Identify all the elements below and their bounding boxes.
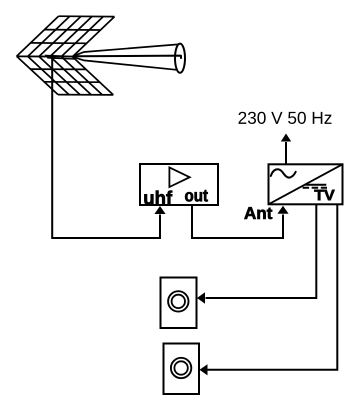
antenna reflector lower grid — [17, 56, 114, 95]
mains wire — [285, 142, 287, 164]
antenna reflector upper grid — [17, 16, 115, 57]
label 230 V 50 Hz — [239, 112, 332, 124]
label Ant — [244, 207, 272, 219]
arrowhead into power unit Ant input — [277, 206, 288, 214]
wire amplifier out to power unit Ant input — [192, 206, 283, 238]
outlet 2 socket circles — [171, 358, 191, 378]
wire antenna feed to amplifier input — [52, 58, 160, 238]
amplifier triangle symbol — [169, 167, 189, 187]
DC symbol dashed line — [303, 187, 327, 189]
AC sine symbol — [271, 169, 296, 177]
label uhf — [144, 191, 172, 205]
arrowhead to mains supply — [281, 134, 291, 142]
power supply diagonal divider — [269, 164, 343, 204]
arrowhead into amplifier uhf input — [154, 206, 165, 214]
arrowhead into outlet 2 — [200, 364, 208, 375]
amplifier box U1 — [140, 164, 218, 205]
outlet 1 box — [161, 278, 197, 329]
power supply unit box — [269, 164, 343, 204]
wire TV output 1 to outlet 1 — [206, 205, 317, 299]
antenna dipole element — [74, 56, 181, 59]
DC symbol solid line — [305, 184, 326, 186]
antenna feed rod — [46, 55, 74, 59]
label TV — [314, 190, 334, 200]
outlet 1 socket circles — [168, 291, 188, 311]
antenna horn cone — [73, 44, 185, 73]
outlet 2 box — [164, 344, 200, 395]
label out — [185, 190, 208, 201]
arrowhead into outlet 1 — [197, 292, 205, 303]
wire TV output 2 to outlet 2 — [208, 205, 338, 370]
